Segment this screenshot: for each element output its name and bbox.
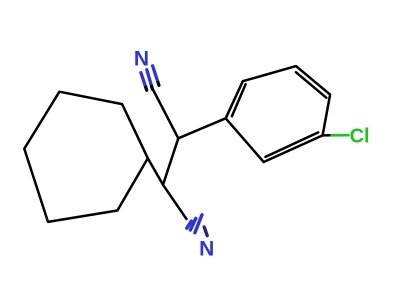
svg-text:N: N: [199, 237, 214, 260]
svg-text:Cl: Cl: [350, 126, 370, 148]
svg-text:N: N: [134, 47, 149, 70]
